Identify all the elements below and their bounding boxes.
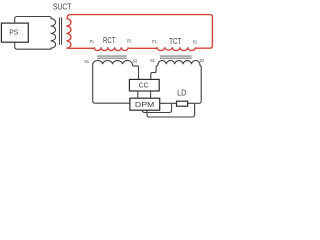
transformer SUCT core <box>59 17 60 44</box>
wire TCT S2 down right side to LD <box>188 66 202 104</box>
transformer SUCT secondary winding (red) <box>66 15 71 49</box>
svg-text:P1: P1 <box>152 39 157 44</box>
svg-text:PS: PS <box>9 28 18 37</box>
wire DPM right to LD <box>160 102 177 104</box>
box CC <box>129 79 159 91</box>
core TCT <box>160 55 192 58</box>
wire DPM bottom port1 to LD-left node <box>142 103 171 112</box>
wire DPM bottom port2 to LD-right node <box>147 103 195 117</box>
box LD <box>177 101 188 106</box>
winding RCT secondary <box>93 60 133 65</box>
svg-text:P1: P1 <box>90 39 95 44</box>
wire CC to DPM left <box>137 91 139 98</box>
transformer TCT primary winding (red) <box>157 47 195 50</box>
svg-text:S1: S1 <box>150 58 155 64</box>
wire RCT S1 to DPM <box>93 66 130 104</box>
svg-text:S2: S2 <box>133 59 138 65</box>
svg-text:TCT: TCT <box>169 37 181 46</box>
transformer RCT primary winding (red) <box>94 47 128 50</box>
wire red loop top and right side <box>71 15 213 49</box>
core RCT <box>97 55 127 58</box>
svg-text:P2: P2 <box>193 39 198 44</box>
transformer SUCT primary winding <box>51 19 56 49</box>
wire red between TCT and RCT <box>128 47 157 49</box>
svg-text:LD: LD <box>177 88 187 97</box>
winding TCT secondary <box>158 60 200 65</box>
wire CC to DPM right <box>150 91 152 98</box>
svg-text:RCT: RCT <box>103 36 116 45</box>
svg-text:CC: CC <box>139 82 149 89</box>
svg-text:SUCT: SUCT <box>53 2 71 11</box>
wire RCT S2 to CC <box>132 66 138 80</box>
wire PS to transformer primary (top and bottom leads) <box>15 17 52 24</box>
wire TCT S1 to CC <box>151 66 158 80</box>
svg-text:P2: P2 <box>127 39 132 44</box>
box DPM <box>130 98 160 110</box>
svg-text:S2: S2 <box>200 58 205 64</box>
svg-text:S1: S1 <box>84 59 89 65</box>
svg-text:DPM: DPM <box>135 100 154 109</box>
wire red from RCT to transformer <box>70 47 94 49</box>
power source PS <box>1 23 28 42</box>
